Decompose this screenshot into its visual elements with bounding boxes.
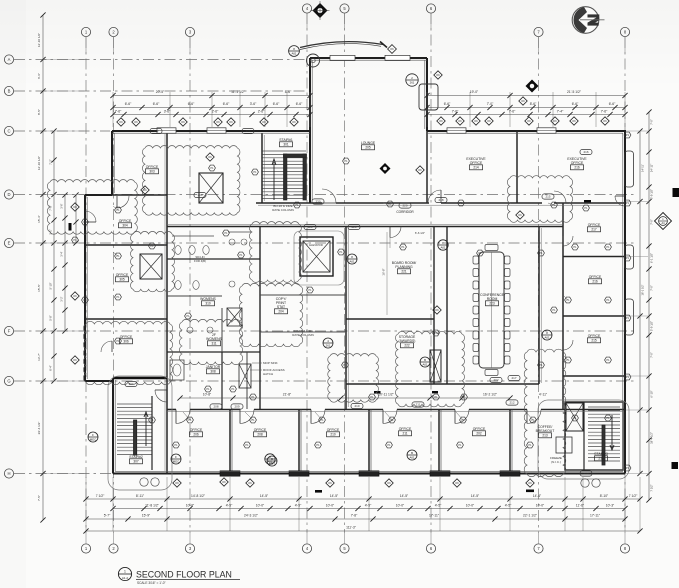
- svg-text:6'-6": 6'-6": [153, 102, 160, 106]
- svg-text:OK: OK: [439, 119, 443, 123]
- svg-text:OFFICE: OFFICE: [470, 161, 483, 165]
- svg-text:WOMENS: WOMENS: [200, 297, 216, 301]
- svg-text:11'-8 1/2": 11'-8 1/2": [145, 503, 159, 507]
- svg-text:6'-6": 6'-6": [572, 102, 579, 106]
- svg-text:7'-6": 7'-6": [452, 110, 459, 114]
- svg-text:12'-10 1/2": 12'-10 1/2": [37, 156, 41, 170]
- svg-text:P1: P1: [116, 295, 120, 299]
- svg-text:310: 310: [205, 302, 211, 306]
- svg-text:P1: P1: [458, 443, 462, 447]
- svg-text:STAIR#2: STAIR#2: [129, 455, 143, 459]
- svg-text:216: 216: [592, 280, 598, 284]
- svg-text:F: F: [92, 433, 94, 437]
- svg-text:19'-0": 19'-0": [470, 90, 479, 94]
- svg-text:221: 221: [401, 270, 407, 274]
- svg-text:OK: OK: [487, 119, 491, 123]
- svg-text:RATE COLUMN: RATE COLUMN: [292, 333, 314, 337]
- svg-text:29'-4 1/2": 29'-4 1/2": [37, 422, 41, 435]
- svg-text:RATE COLUMN: RATE COLUMN: [272, 208, 294, 212]
- svg-text:6'-6": 6'-6": [37, 73, 41, 79]
- svg-text:302: 302: [153, 129, 158, 133]
- svg-text:OK: OK: [328, 481, 332, 485]
- svg-text:8'-5": 8'-5": [37, 109, 41, 115]
- svg-text:P1: P1: [206, 387, 210, 391]
- svg-text:210: 210: [330, 433, 336, 437]
- svg-text:6'-10": 6'-10": [650, 390, 654, 397]
- svg-text:A61: A61: [441, 246, 446, 250]
- svg-text:P1: P1: [539, 363, 543, 367]
- svg-text:7 1/2": 7 1/2": [629, 494, 638, 498]
- svg-text:21'-8": 21'-8": [283, 393, 292, 397]
- svg-text:MEC: MEC: [90, 438, 96, 442]
- svg-text:11'-6": 11'-6": [576, 503, 585, 507]
- svg-text:MOP SINK: MOP SINK: [263, 361, 278, 365]
- svg-text:308: 308: [210, 370, 216, 374]
- svg-text:5'-9 1/2": 5'-9 1/2": [650, 321, 654, 331]
- svg-text:OFFICE: OFFICE: [399, 427, 412, 431]
- svg-text:2'-6": 2'-6": [212, 110, 219, 114]
- svg-text:17'-11": 17'-11": [590, 514, 601, 518]
- svg-text:P1: P1: [573, 245, 577, 249]
- svg-text:307: 307: [128, 382, 133, 386]
- svg-text:303: 303: [149, 170, 155, 174]
- svg-text:OK: OK: [418, 168, 422, 172]
- svg-text:PLANNING: PLANNING: [395, 265, 413, 269]
- svg-text:P1: P1: [224, 231, 228, 235]
- svg-text:261: 261: [410, 81, 415, 85]
- svg-text:OK: OK: [603, 119, 607, 123]
- svg-text:P1: P1: [73, 238, 77, 242]
- svg-text:OK: OK: [73, 294, 77, 298]
- svg-text:223: 223: [307, 225, 312, 229]
- svg-text:CORRIDOR: CORRIDOR: [396, 210, 414, 214]
- svg-text:MEC: MEC: [173, 460, 179, 464]
- svg-text:7'-0": 7'-0": [650, 352, 654, 358]
- svg-text:P1: P1: [387, 443, 391, 447]
- svg-text:202: 202: [476, 432, 482, 436]
- svg-text:204: 204: [278, 310, 284, 314]
- svg-text:P1: P1: [316, 443, 320, 447]
- svg-text:P1: P1: [370, 395, 374, 399]
- svg-text:OK: OK: [455, 481, 459, 485]
- svg-text:OK: OK: [229, 120, 233, 124]
- svg-text:OK: OK: [572, 119, 576, 123]
- svg-text:P1: P1: [462, 395, 466, 399]
- svg-text:A61: A61: [292, 52, 297, 56]
- svg-text:OFFICE: OFFICE: [116, 273, 129, 277]
- svg-text:P1: P1: [116, 208, 120, 212]
- svg-text:11'-1 1/2": 11'-1 1/2": [231, 90, 245, 94]
- svg-text:P1: P1: [552, 203, 556, 207]
- svg-text:P1: P1: [478, 251, 482, 255]
- svg-text:8'-11": 8'-11": [136, 494, 145, 498]
- svg-text:10'-0": 10'-0": [396, 503, 405, 507]
- svg-text:6'-1 1/2": 6'-1 1/2": [650, 253, 654, 263]
- svg-text:P1: P1: [186, 314, 190, 318]
- svg-text:6'-6": 6'-6": [609, 102, 616, 106]
- svg-text:230: 230: [315, 200, 320, 204]
- svg-text:7'-6": 7'-6": [509, 110, 516, 114]
- svg-text:OK: OK: [175, 481, 179, 485]
- svg-text:10'-0": 10'-0": [536, 503, 545, 507]
- svg-text:P1: P1: [150, 418, 154, 422]
- svg-text:BREAKOUT: BREAKOUT: [536, 429, 555, 433]
- svg-text:P1: P1: [573, 416, 577, 420]
- svg-text:4'-5": 4'-5": [295, 503, 302, 507]
- svg-text:P1: P1: [626, 201, 630, 205]
- svg-text:OK: OK: [262, 120, 266, 124]
- svg-text:P1: P1: [626, 375, 630, 379]
- svg-text:STAIR#3: STAIR#3: [594, 452, 608, 456]
- svg-text:5'-9 1/2": 5'-9 1/2": [650, 189, 654, 199]
- svg-text:7'-0": 7'-0": [650, 219, 654, 225]
- svg-text:216: 216: [583, 150, 588, 154]
- svg-text:P1: P1: [626, 466, 630, 470]
- svg-text:222: 222: [404, 344, 410, 348]
- svg-text:8'-6": 8'-6": [530, 102, 537, 106]
- svg-text:6'-4": 6'-4": [49, 365, 53, 370]
- svg-text:OK: OK: [387, 481, 391, 485]
- svg-text:FOR 4(B): FOR 4(B): [194, 259, 206, 263]
- svg-text:6'-6": 6'-6": [188, 102, 195, 106]
- svg-text:B: B: [424, 358, 426, 362]
- svg-text:P1: P1: [434, 331, 438, 335]
- svg-text:D: D: [7, 192, 10, 197]
- svg-text:A61: A61: [410, 456, 415, 460]
- svg-text:4'-5": 4'-5": [365, 503, 372, 507]
- svg-text:P1: P1: [344, 159, 348, 163]
- svg-text:OFFICE: OFFICE: [473, 427, 486, 431]
- svg-text:10'-0": 10'-0": [326, 503, 335, 507]
- svg-text:P1: P1: [295, 203, 299, 207]
- svg-text:H: H: [7, 471, 10, 476]
- svg-text:2'-6": 2'-6": [258, 110, 265, 114]
- svg-text:P1: P1: [584, 206, 588, 210]
- svg-text:6'-6": 6'-6": [125, 102, 132, 106]
- svg-text:P1: P1: [83, 298, 87, 302]
- svg-text:303: 303: [197, 193, 202, 197]
- svg-text:OFFICE: OFFICE: [327, 428, 340, 432]
- svg-text:OK: OK: [521, 99, 525, 103]
- svg-text:7'-6": 7'-6": [601, 110, 608, 114]
- svg-text:13'-7": 13'-7": [37, 353, 41, 361]
- svg-text:OK: OK: [518, 213, 522, 217]
- svg-text:213: 213: [542, 434, 548, 438]
- svg-text:P1: P1: [253, 170, 257, 174]
- svg-text:211: 211: [402, 432, 407, 436]
- svg-text:P1: P1: [116, 254, 120, 258]
- svg-text:OK: OK: [73, 205, 77, 209]
- svg-text:5'-7": 5'-7": [104, 514, 111, 518]
- svg-text:OK: OK: [181, 120, 185, 124]
- svg-text:218: 218: [438, 198, 443, 202]
- svg-text:111'-3": 111'-3": [346, 526, 357, 530]
- svg-text:305: 305: [119, 278, 125, 282]
- svg-text:A61: A61: [545, 336, 550, 340]
- svg-text:4'-5": 4'-5": [435, 503, 442, 507]
- svg-text:P1: P1: [116, 339, 120, 343]
- svg-text:OK: OK: [73, 358, 77, 362]
- svg-text:209: 209: [234, 405, 239, 409]
- svg-text:A61: A61: [423, 363, 428, 367]
- svg-text:P1: P1: [606, 298, 610, 302]
- svg-text:OFFICE: OFFICE: [588, 223, 601, 227]
- svg-text:18'-4 1/2": 18'-4 1/2": [650, 432, 654, 444]
- svg-text:OK: OK: [435, 308, 439, 312]
- svg-text:7'-0": 7'-0": [487, 102, 494, 106]
- svg-text:7'-4": 7'-4": [557, 110, 564, 114]
- svg-text:14'-4": 14'-4": [533, 494, 542, 498]
- svg-text:P1: P1: [343, 363, 347, 367]
- svg-text:A1.2: A1.2: [122, 576, 129, 580]
- svg-text:OFFICE: OFFICE: [120, 335, 133, 339]
- svg-text:14'-8 1/2": 14'-8 1/2": [191, 494, 206, 498]
- svg-text:3'-4": 3'-4": [60, 251, 64, 256]
- svg-text:7'-0": 7'-0": [650, 285, 654, 291]
- svg-text:14'-11": 14'-11": [650, 164, 654, 172]
- svg-text:7 1/2": 7 1/2": [650, 484, 654, 491]
- svg-text:7'-8": 7'-8": [351, 514, 358, 518]
- svg-text:HATCH: HATCH: [263, 372, 273, 376]
- svg-text:10'-0": 10'-0": [256, 503, 265, 507]
- svg-text:OK: OK: [458, 119, 462, 123]
- svg-text:P1: P1: [401, 245, 405, 249]
- svg-text:OK: OK: [208, 155, 212, 159]
- svg-text:17'-11": 17'-11": [429, 514, 440, 518]
- svg-text:5'-8": 5'-8": [49, 315, 53, 320]
- svg-text:STAIR#1: STAIR#1: [279, 138, 293, 142]
- svg-text:P1: P1: [339, 250, 343, 254]
- svg-text:8'-10": 8'-10": [600, 494, 609, 498]
- svg-text:202: 202: [493, 378, 498, 382]
- svg-text:4'-5": 4'-5": [505, 503, 512, 507]
- svg-text:B: B: [8, 89, 11, 94]
- svg-text:20'-5": 20'-5": [156, 90, 165, 94]
- svg-text:OK: OK: [474, 119, 478, 123]
- svg-text:F: F: [175, 455, 177, 459]
- svg-text:P1: P1: [308, 288, 312, 292]
- svg-text:14'-5": 14'-5": [400, 494, 409, 498]
- svg-text:OFFICE: OFFICE: [588, 334, 601, 338]
- svg-text:10'-0": 10'-0": [466, 503, 475, 507]
- svg-text:P1: P1: [231, 387, 235, 391]
- svg-text:14'-5": 14'-5": [330, 494, 339, 498]
- svg-text:P1: P1: [388, 202, 392, 206]
- svg-text:3'-6": 3'-6": [164, 110, 171, 114]
- svg-text:SECOND FLOOR PLAN: SECOND FLOOR PLAN: [136, 569, 232, 579]
- svg-text:ELEVATOR: ELEVATOR: [309, 243, 323, 247]
- svg-text:3'-2": 3'-2": [60, 296, 64, 301]
- svg-text:5'-10": 5'-10": [49, 283, 53, 290]
- svg-text:223: 223: [351, 225, 356, 229]
- svg-text:3'-6": 3'-6": [250, 102, 257, 106]
- svg-text:6'-6 1/2": 6'-6 1/2": [415, 231, 425, 235]
- svg-text:6'-6": 6'-6": [296, 102, 303, 106]
- svg-text:F: F: [8, 329, 11, 334]
- svg-text:219: 219: [583, 472, 588, 476]
- svg-text:P1: P1: [606, 245, 610, 249]
- svg-text:217: 217: [591, 228, 597, 232]
- svg-text:261: 261: [326, 344, 331, 348]
- svg-text:15'-3": 15'-3": [37, 215, 41, 223]
- svg-text:LOUNGE: LOUNGE: [361, 141, 376, 145]
- svg-text:7'-2": 7'-2": [49, 159, 53, 164]
- svg-text:22'-1 1/2": 22'-1 1/2": [523, 514, 538, 518]
- svg-text:14'-5": 14'-5": [471, 494, 480, 498]
- svg-text:OFFICE: OFFICE: [119, 219, 132, 223]
- svg-text:OFFICE: OFFICE: [146, 165, 159, 169]
- svg-text:P1: P1: [245, 443, 249, 447]
- svg-text:B: B: [271, 457, 273, 461]
- svg-text:304: 304: [122, 224, 128, 228]
- svg-text:P1: P1: [626, 133, 630, 137]
- svg-text:16'-2 1/2": 16'-2 1/2": [483, 393, 498, 397]
- svg-text:7'-5": 7'-5": [37, 495, 41, 501]
- svg-text:ROOM: ROOM: [487, 297, 498, 301]
- svg-text:16'-8": 16'-8": [382, 268, 386, 275]
- svg-text:WOMENS: WOMENS: [206, 337, 222, 341]
- svg-text:C: C: [7, 129, 10, 134]
- svg-text:P1: P1: [83, 220, 87, 224]
- svg-text:OK: OK: [553, 119, 557, 123]
- svg-text:7'-0": 7'-0": [650, 119, 654, 125]
- svg-text:P1: P1: [239, 253, 243, 257]
- svg-text:307: 307: [133, 460, 139, 464]
- svg-text:311: 311: [211, 342, 216, 346]
- svg-text:(AWARDS): (AWARDS): [399, 339, 416, 343]
- svg-text:301: 301: [245, 129, 250, 133]
- svg-text:1: 1: [124, 570, 126, 574]
- svg-text:14'-11": 14'-11": [641, 164, 645, 172]
- svg-text:7'-6": 7'-6": [115, 110, 122, 114]
- svg-text:206: 206: [193, 433, 199, 437]
- svg-text:JANITOR: JANITOR: [206, 365, 221, 369]
- svg-text:4'-5": 4'-5": [226, 503, 233, 507]
- svg-text:6'-6": 6'-6": [223, 102, 230, 106]
- svg-text:OK: OK: [436, 73, 440, 77]
- svg-text:215: 215: [591, 339, 597, 343]
- svg-text:P1: P1: [528, 443, 532, 447]
- svg-text:205: 205: [365, 146, 371, 150]
- svg-text:10'-8": 10'-8": [203, 393, 212, 397]
- svg-text:217: 217: [511, 376, 516, 380]
- svg-text:P1: P1: [210, 166, 214, 170]
- svg-text:218: 218: [598, 457, 604, 461]
- svg-text:301: 301: [283, 143, 289, 147]
- svg-text:211: 211: [416, 403, 421, 407]
- svg-text:OK: OK: [528, 481, 532, 485]
- svg-text:P1: P1: [626, 256, 630, 260]
- svg-text:10'-3": 10'-3": [606, 503, 615, 507]
- svg-text:STAT: STAT: [277, 305, 285, 309]
- svg-text:20'-11 1/2": 20'-11 1/2": [378, 393, 394, 397]
- svg-text:15'-5": 15'-5": [37, 284, 41, 292]
- svg-text:A: A: [8, 57, 11, 62]
- svg-text:306: 306: [123, 340, 129, 344]
- svg-text:P1: P1: [606, 358, 610, 362]
- svg-text:OK: OK: [292, 120, 296, 124]
- svg-text:21'-5 1/2": 21'-5 1/2": [567, 90, 582, 94]
- svg-text:OK: OK: [390, 47, 394, 51]
- svg-text:OFFICE: OFFICE: [571, 161, 584, 165]
- svg-text:210: 210: [354, 404, 359, 408]
- svg-text:MET: MET: [269, 462, 275, 466]
- svg-text:B: B: [411, 451, 413, 455]
- svg-text:P1: P1: [539, 251, 543, 255]
- svg-text:14'-5": 14'-5": [260, 494, 269, 498]
- svg-text:212: 212: [509, 401, 514, 405]
- svg-text:OK: OK: [134, 120, 138, 124]
- svg-text:10'-0": 10'-0": [186, 503, 195, 507]
- svg-text:P1: P1: [150, 244, 154, 248]
- svg-text:OFFICE: OFFICE: [190, 428, 203, 432]
- svg-text:P1: P1: [251, 395, 255, 399]
- svg-text:214: 214: [473, 166, 479, 170]
- svg-text:P1: P1: [174, 443, 178, 447]
- svg-text:16'-1 1/2": 16'-1 1/2": [641, 284, 645, 295]
- svg-text:OK: OK: [216, 120, 220, 124]
- svg-text:6'-6": 6'-6": [273, 102, 280, 106]
- svg-text:OFFICE: OFFICE: [589, 275, 602, 279]
- svg-text:7 1/2": 7 1/2": [96, 494, 105, 498]
- svg-text:OK: OK: [119, 120, 123, 124]
- svg-text:P1: P1: [434, 395, 438, 399]
- svg-text:OK: OK: [248, 481, 252, 485]
- svg-text:4'-11": 4'-11": [539, 393, 548, 397]
- svg-text:(N.I.C.): (N.I.C.): [551, 460, 561, 464]
- svg-text:3'-6": 3'-6": [60, 203, 64, 208]
- svg-text:6'-6": 6'-6": [444, 102, 451, 106]
- svg-text:12'-10 1/2": 12'-10 1/2": [37, 33, 41, 47]
- svg-text:P1: P1: [459, 201, 463, 205]
- svg-text:OK: OK: [222, 480, 226, 484]
- svg-text:P1: P1: [606, 416, 610, 420]
- svg-text:P1: P1: [552, 308, 556, 312]
- svg-text:24'-3 1/2": 24'-3 1/2": [244, 514, 259, 518]
- svg-text:220: 220: [402, 204, 407, 208]
- svg-text:223: 223: [489, 302, 495, 306]
- svg-text:SCALE 3/16" = 1'-0": SCALE 3/16" = 1'-0": [137, 581, 166, 585]
- svg-text:208: 208: [213, 405, 218, 409]
- svg-text:OFFICE: OFFICE: [254, 428, 267, 432]
- svg-text:G: G: [7, 379, 10, 384]
- svg-text:P1: P1: [626, 316, 630, 320]
- svg-text:OK: OK: [527, 119, 531, 123]
- svg-text:A61: A61: [350, 260, 355, 264]
- svg-text:15'-9": 15'-9": [142, 514, 151, 518]
- svg-text:8'-6": 8'-6": [285, 90, 292, 94]
- svg-text:208: 208: [257, 433, 263, 437]
- svg-text:216: 216: [574, 166, 580, 170]
- svg-text:215: 215: [545, 195, 550, 199]
- svg-text:E: E: [8, 241, 11, 246]
- svg-text:OK: OK: [143, 188, 147, 192]
